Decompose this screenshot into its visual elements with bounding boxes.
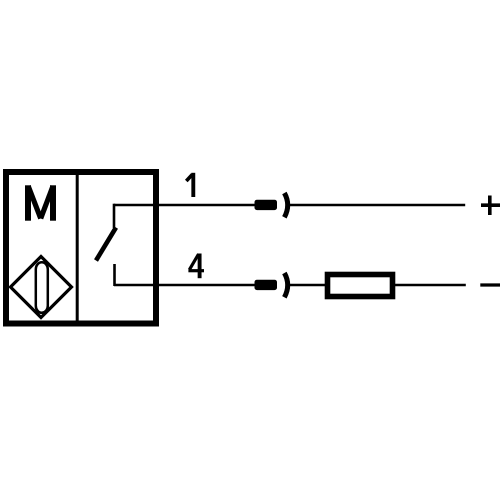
wire load to minus	[395, 284, 466, 287]
wire pin4 bottom	[114, 284, 255, 287]
switch bottom stub	[113, 264, 116, 286]
connector socket top	[284, 193, 287, 217]
pin label 1	[186, 173, 193, 197]
connector pin top	[255, 200, 278, 210]
connector socket bottom	[284, 273, 287, 297]
wire pin1 top	[114, 204, 255, 207]
wire socket to load	[290, 284, 325, 287]
switch blade	[96, 228, 116, 261]
connector pin bottom	[255, 280, 278, 290]
sensing element diamond	[11, 257, 72, 318]
pin label 4	[188, 254, 204, 279]
wire top to plus	[290, 204, 465, 207]
marking M	[28, 185, 53, 220]
plus terminal	[481, 203, 500, 207]
load resistor	[328, 275, 393, 297]
sensing element capsule	[36, 262, 48, 313]
divider wall	[76, 172, 79, 323]
minus terminal	[480, 283, 500, 286]
switch top stub	[113, 204, 116, 228]
sensor body box	[6, 172, 156, 324]
